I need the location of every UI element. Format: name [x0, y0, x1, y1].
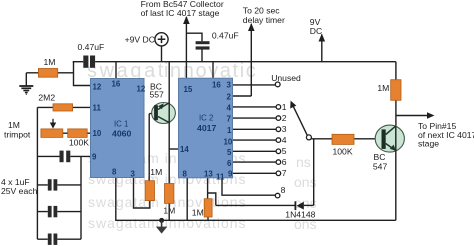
wire IC2 pin1 to output 3 [233, 128, 277, 130]
svg-text:6: 6 [227, 159, 232, 168]
svg-text:7: 7 [227, 115, 232, 124]
svg-text:9: 9 [228, 170, 233, 179]
svg-text:16: 16 [112, 80, 121, 89]
svg-text:2: 2 [282, 113, 287, 123]
svg-text:12: 12 [93, 83, 102, 92]
wire ground rail bottom [116, 178, 396, 221]
svg-text:2M2: 2M2 [38, 93, 55, 103]
svg-text:11: 11 [216, 173, 225, 182]
resistor 100K left [68, 129, 88, 138]
wire right ladder rail [80, 156, 82, 239]
resistor 1M collector pulldown [165, 184, 174, 204]
trimpot wiper arrow [50, 119, 56, 129]
svg-text:557: 557 [150, 90, 165, 100]
svg-text:8: 8 [281, 185, 286, 195]
wire switch pole to 100K [311, 138, 332, 140]
svg-text:stage: stage [418, 139, 439, 149]
label annotations [1, 0, 389, 219]
resistor 1M right pullup [391, 80, 401, 101]
svg-text:1M: 1M [44, 57, 56, 67]
svg-text:15: 15 [184, 85, 193, 94]
svg-text:14: 14 [180, 145, 189, 154]
svg-text:25V each: 25V each [1, 186, 38, 196]
wire trimpot 100K line to IC1 pin10 [63, 132, 91, 134]
wire resistor bottom lead to ground rail [207, 217, 209, 220]
svg-text:100K: 100K [69, 137, 89, 147]
capacitor 0.47uF series top-left [83, 56, 95, 68]
ground symbol top-left [19, 86, 33, 94]
wire IC2 pin9 to output 7 [233, 172, 277, 174]
wire pin13 branch to diode [208, 193, 216, 205]
svg-text:BC: BC [374, 152, 386, 162]
wire IC2 pin6 to output 6 [233, 161, 277, 163]
svg-text:1M: 1M [377, 83, 389, 93]
wire 1uF cap line to IC1 pin9 [37, 155, 90, 157]
resistor 1M pin13 pulldown [204, 199, 212, 217]
wire IC2 pin3 to unused terminal [233, 84, 276, 86]
ground arrow symbol bottom [156, 220, 167, 233]
node output 5 terminal [276, 149, 281, 154]
wire right rail down to 1M and BC547 [395, 62, 397, 125]
svg-text:9: 9 [92, 153, 97, 162]
svg-text:547: 547 [373, 162, 388, 172]
diode D1 1N4148 [295, 201, 304, 210]
wire BC557 collector vertical through to 1M [168, 62, 170, 184]
wire IC2 pin8 ground [186, 178, 188, 221]
svg-text:4060: 4060 [112, 129, 131, 139]
svg-text:0.47uF: 0.47uF [78, 42, 105, 52]
svg-text:8: 8 [183, 170, 188, 179]
arrow 9V DC supply [319, 34, 326, 42]
arrow from BC547 collector of last stage [183, 16, 190, 24]
svg-text:12: 12 [137, 85, 146, 94]
wire resistor R2 lead to ground rail [168, 203, 170, 220]
svg-text:10: 10 [224, 138, 233, 147]
wire IC2 pin2 to 20sec delay timer arrow [233, 24, 252, 96]
transistor Q2 BC547 [375, 125, 404, 152]
svg-text:100K: 100K [333, 147, 353, 157]
svg-text:IC 2: IC 2 [199, 114, 213, 123]
transistor Q1 BC557 [152, 103, 176, 124]
wire BC547 emitter to ground rail [395, 152, 397, 221]
svg-text:To 20 sec: To 20 sec [243, 6, 280, 16]
capacitor 1uF ladder 3 [48, 234, 58, 245]
wire BC557 base drop to 1M [149, 114, 154, 181]
svg-text:5: 5 [227, 148, 232, 157]
node output 8 terminal [275, 193, 280, 198]
wire switch pole down to diode [313, 139, 315, 206]
IC U1 pin labels [92, 80, 146, 179]
wire branch to 0.47uF reset cap [186, 33, 202, 62]
switch arm selector [290, 101, 311, 140]
wire IC2 pin14 clock stub [169, 148, 178, 150]
battery +9V DC terminal [155, 33, 168, 46]
wire ladder rung 2 [37, 211, 81, 213]
svg-text:13: 13 [204, 170, 213, 179]
svg-text:4: 4 [227, 104, 232, 113]
node output 3 terminal [276, 127, 281, 132]
wire IC2 pin5 to output 5 [233, 150, 277, 152]
svg-text:7: 7 [282, 168, 287, 178]
wire IC2 pin16 supply [212, 62, 214, 78]
svg-text:DC: DC [310, 26, 322, 36]
wire node pin12 junction vertical [74, 62, 91, 86]
resistor 1M top-left [38, 69, 57, 78]
wire ground stem top-left [25, 73, 27, 86]
svg-text:1N4148: 1N4148 [285, 209, 315, 219]
trimpot 1M [41, 129, 63, 138]
wire ladder rung 1 [37, 184, 81, 186]
capacitor 1uF on pin9 line [60, 151, 71, 163]
IC U2 pin labels [180, 81, 233, 182]
svg-text:11: 11 [93, 104, 102, 113]
svg-text:1M: 1M [163, 206, 175, 216]
capacitor 1uF ladder 2 [48, 206, 58, 217]
svg-text:4: 4 [282, 135, 287, 145]
IC U2 4017 body [179, 78, 233, 178]
svg-text:ns: ns [296, 154, 311, 170]
svg-text:+9V DC: +9V DC [125, 34, 155, 44]
svg-text:3: 3 [227, 81, 232, 90]
wire top +9V rail [95, 61, 396, 63]
svg-text:8: 8 [112, 168, 117, 177]
svg-text:swagatam innovations: swagatam innovations [88, 215, 247, 231]
node output 2 terminal [276, 116, 281, 121]
wire IC1 pin3 to 1M base resistor [134, 178, 150, 209]
svg-text:6: 6 [282, 157, 287, 167]
resistor 1M base of BC557 [145, 181, 154, 201]
resistor 2M2 [53, 104, 73, 111]
wire IC1 pin16 supply [115, 62, 117, 79]
svg-text:delay timer: delay timer [243, 15, 285, 25]
arrow to 20 sec delay timer [248, 23, 255, 31]
wire IC2 pin4 to output 1 [233, 106, 277, 108]
wire 9V DC arrow [321, 35, 323, 62]
svg-text:1: 1 [227, 126, 232, 135]
svg-text:1: 1 [282, 102, 287, 112]
svg-text:10: 10 [93, 129, 102, 138]
node output 7 terminal [276, 171, 281, 176]
svg-text:3: 3 [282, 124, 287, 134]
svg-text:0.47uF: 0.47uF [212, 31, 239, 41]
wire ladder rung 3 [37, 238, 81, 240]
wire IC2 pin7 to output 2 [233, 117, 277, 119]
wire IC2 pin13 drop [207, 178, 209, 199]
wire diode anode [304, 204, 314, 206]
wire left ladder rail [36, 107, 38, 239]
wire +9V DC tap [161, 46, 163, 62]
wire 2M2 to IC1 pin11 [37, 106, 90, 108]
node output 1 terminal [276, 105, 281, 110]
node unused output terminal [275, 82, 280, 87]
wire IC2 pin11 to output 8 [222, 178, 275, 195]
capacitor 0.47uF reset IC2 [196, 41, 210, 49]
svg-text:3: 3 [131, 170, 136, 179]
svg-text:1M: 1M [8, 120, 20, 130]
svg-text:1M: 1M [192, 207, 204, 217]
wire IC2 pin10 to output 4 [233, 139, 277, 141]
svg-text:trimpot: trimpot [4, 130, 31, 140]
node output labels [281, 102, 287, 195]
wire resistor 1M to ground / junction [26, 72, 73, 74]
svg-text:5: 5 [282, 146, 287, 156]
svg-text:1M: 1M [150, 167, 162, 177]
wire output to next stage arrow [396, 115, 429, 117]
wire from BC547 collector arrow to IC2 pin15 [185, 17, 187, 78]
resistor 100K base BC547 [332, 134, 354, 144]
svg-text:IC 1: IC 1 [114, 120, 128, 129]
svg-text:Unused: Unused [271, 73, 301, 83]
svg-text:16: 16 [212, 81, 221, 90]
capacitor 1uF ladder 1 [48, 179, 58, 190]
node output 6 terminal [276, 160, 281, 165]
ground node dot [159, 218, 164, 223]
svg-text:2: 2 [227, 93, 232, 102]
wire diode cathode to pin13 [216, 204, 295, 206]
svg-text:4017: 4017 [197, 123, 216, 133]
wire BC547 base [354, 138, 381, 140]
label to pin15 next stage [418, 121, 474, 148]
wire top rail left of series cap [73, 61, 84, 63]
node output 4 terminal [276, 138, 281, 143]
IC U1 4060 body [91, 79, 145, 178]
arrow to pin 15 next stage [427, 112, 435, 119]
svg-text:of last IC 4017 stage: of last IC 4017 stage [141, 8, 220, 18]
